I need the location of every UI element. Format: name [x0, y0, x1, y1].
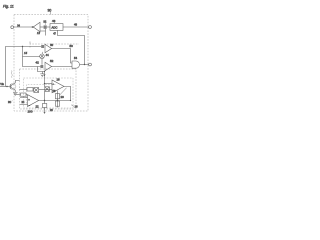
feedback box F1 [14, 94, 21, 96]
svg-text:44: 44 [46, 53, 50, 57]
capacitor C1 [44, 25, 47, 28]
branch to mixer [23, 56, 40, 58]
dashed block Q [24, 78, 74, 108]
svg-text:48: 48 [74, 22, 77, 26]
dashed inner block 40 top [30, 44, 79, 48]
input rail riser [6, 47, 23, 87]
svg-text:100: 100 [28, 110, 33, 114]
gate G1 [72, 61, 80, 68]
node dot [57, 100, 58, 101]
svg-text:22: 22 [36, 105, 40, 109]
terminal OUT2 [89, 26, 92, 29]
svg-text:54: 54 [74, 56, 78, 60]
output arrow below box [44, 108, 46, 113]
ground G2 [40, 72, 44, 77]
column V1 [44, 72, 46, 87]
wire A2 out [52, 49, 72, 64]
input wire [0, 86, 7, 88]
dashed block P [20, 69, 77, 109]
mixer top stub [41, 52, 43, 54]
gate output wire [80, 64, 89, 66]
wire to right terminal [63, 26, 89, 28]
transistor Q1 [7, 86, 11, 88]
wire A3 out [52, 66, 72, 68]
box on V1 bottom [44, 101, 46, 104]
A4 output [64, 86, 71, 100]
wire to A4 top input [45, 83, 53, 85]
svg-text:Vin: Vin [0, 82, 4, 86]
svg-text:42: 42 [36, 61, 40, 65]
svg-text:52: 52 [50, 59, 54, 63]
wire to amp chain [20, 89, 28, 91]
resistor R2 [55, 94, 59, 99]
comparator A3 [45, 62, 52, 70]
svg-text:30: 30 [48, 9, 52, 13]
tap to ground [38, 67, 45, 72]
node dot [6, 86, 7, 87]
A5 output [39, 100, 71, 102]
svg-text:20: 20 [61, 95, 65, 99]
A5 inputs [20, 98, 28, 105]
element X2 [34, 88, 39, 93]
feedback diagonal [60, 88, 67, 95]
feedback wire from U1 down right side [58, 30, 85, 64]
wire out1 [14, 26, 33, 28]
resistor R3 [55, 101, 59, 106]
node dot [22, 46, 23, 47]
dashed outer block 30 [14, 15, 88, 112]
wire mixer down [41, 59, 43, 65]
svg-text:50: 50 [70, 44, 74, 48]
svg-text:16: 16 [57, 78, 61, 82]
wire [40, 26, 44, 28]
svg-text:Fig. 11: Fig. 11 [3, 5, 14, 9]
element X3 [45, 87, 50, 92]
rail branch down [23, 47, 41, 67]
svg-text:ADC: ADC [52, 26, 58, 30]
dashed block R [27, 85, 57, 104]
output terminal OUT1 [11, 26, 14, 29]
wire row A [23, 46, 42, 48]
wire [47, 26, 50, 28]
node dot [84, 64, 85, 65]
svg-text:46: 46 [52, 19, 56, 23]
amplifier A1 (left-pointing) [33, 22, 40, 31]
summing element E2 [40, 65, 43, 68]
ground [13, 90, 18, 95]
box U1 [50, 24, 63, 31]
comparator A2 [45, 44, 52, 52]
arrowhead [44, 74, 45, 76]
collector wire [15, 81, 19, 83]
terminal OUT3 [89, 63, 92, 66]
mixer X1 [40, 54, 45, 59]
summing element E1 [41, 45, 44, 48]
node dot [44, 100, 45, 101]
wire [39, 89, 52, 91]
column R network [57, 91, 59, 108]
resistor R1 [27, 88, 33, 91]
label lead-in squiggle [11, 71, 12, 78]
wire from A1 base bottom [40, 29, 46, 36]
svg-text:16: 16 [75, 105, 79, 109]
svg-text:14: 14 [24, 51, 28, 55]
op-amp A5 [28, 95, 39, 107]
op-amp A4 [52, 80, 64, 93]
